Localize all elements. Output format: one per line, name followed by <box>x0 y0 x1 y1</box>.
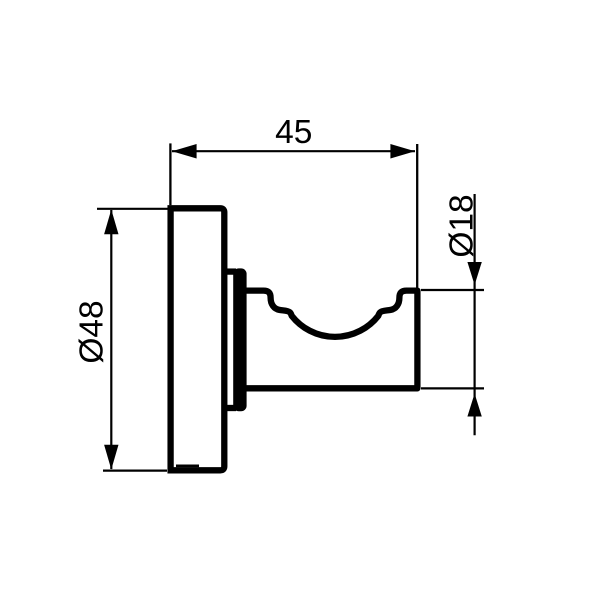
dimension O18: bottom arrow (pointing up) <box>467 394 481 417</box>
svg-text:Ø48: Ø48 <box>74 300 111 363</box>
wall plate (side view rectangle) <box>171 208 225 470</box>
hook body outline with decorative top profile <box>244 291 417 389</box>
dimension 45: right arrow <box>390 144 415 159</box>
svg-text:Ø18: Ø18 <box>443 194 480 257</box>
dimension O18: bottom tick line <box>421 387 484 389</box>
dimension O18: vertical dimension line <box>474 194 476 435</box>
dimension O48: top extension line <box>97 208 168 210</box>
flange bottom edge to plate <box>226 405 236 411</box>
plate bottom inner detail line <box>176 464 199 467</box>
dimension 45: right extension line <box>416 144 418 288</box>
dimension O48: bottom extension line <box>103 470 167 472</box>
svg-text:45: 45 <box>275 114 312 151</box>
dimension 45: dimension line <box>172 150 415 152</box>
flange bar (solid) <box>233 268 246 411</box>
dimension O48: top arrow <box>104 210 118 235</box>
dimension 45: left extension line <box>169 143 171 205</box>
dimension O48: dimension line <box>110 210 112 469</box>
dimension 45: left arrow <box>172 144 197 159</box>
dimension O18: top tick line <box>421 289 484 291</box>
flange top edge to plate <box>226 268 236 274</box>
dimension O18: top arrow (pointing down) <box>467 262 481 285</box>
dimension O48: bottom arrow <box>104 445 118 470</box>
